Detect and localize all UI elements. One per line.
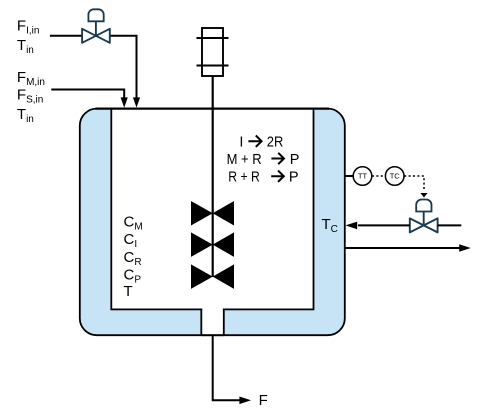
control valve V2 body bbox=[410, 218, 438, 232]
svg-text:Tin: Tin bbox=[17, 37, 34, 56]
vessel top line reinforcement bbox=[96, 107, 330, 109]
control valve V1 actuator stem bbox=[95, 21, 97, 36]
svg-text:Tin: Tin bbox=[17, 106, 34, 125]
svg-text:R + R: R + R bbox=[228, 170, 259, 186]
signal line wall to TT (solid) bbox=[344, 175, 353, 177]
wire: inlet I pipe bbox=[50, 36, 137, 99]
svg-text:P: P bbox=[289, 170, 299, 186]
control valve V1 body bbox=[82, 29, 110, 43]
svg-text:TC: TC bbox=[390, 172, 401, 181]
svg-text:M + R: M + R bbox=[227, 152, 262, 168]
motor housing tick lower bbox=[197, 65, 229, 67]
control valve V2 actuator dome bbox=[416, 200, 431, 212]
arrowhead signal to valve V2 bbox=[420, 193, 427, 198]
svg-text:FI,in: FI,in bbox=[17, 18, 40, 37]
arrowhead inlet M/S pipe into vessel bbox=[121, 97, 128, 107]
reactor jacket (outer vessel, cooling jacket) bbox=[80, 109, 345, 336]
agitator shaft bbox=[212, 76, 214, 277]
signal line TT to TC (dotted) bbox=[372, 175, 385, 177]
instrument TT (temperature transmitter) bbox=[353, 167, 372, 186]
svg-text:P: P bbox=[290, 152, 300, 168]
svg-text:T: T bbox=[124, 283, 133, 300]
agitator motor/bearing housing bbox=[202, 28, 223, 76]
impeller blade pair 1 bbox=[191, 201, 213, 226]
svg-text:FS,in: FS,in bbox=[17, 87, 43, 106]
control valve V1 actuator dome bbox=[88, 9, 103, 21]
impeller blade pair 3 bbox=[191, 264, 213, 289]
svg-text:FM,in: FM,in bbox=[17, 69, 45, 88]
coolant supply line valve V2 to jacket bbox=[358, 224, 410, 226]
outlet nozzle notch through jacket bottom bbox=[201, 308, 224, 335]
arrowhead product outlet bbox=[239, 397, 251, 405]
instrument TC (temperature controller) bbox=[385, 167, 404, 186]
wire: inlet M/S pipe bbox=[51, 90, 124, 100]
svg-text:TT: TT bbox=[358, 172, 368, 181]
reaction equation line 3 arrow bbox=[271, 171, 284, 182]
svg-text:I: I bbox=[239, 134, 243, 150]
reactor vessel (inner tank) bbox=[111, 109, 313, 310]
control valve V2 actuator stem bbox=[423, 212, 425, 226]
motor housing tick upper bbox=[197, 37, 229, 39]
coolant supply line right of valve V2 bbox=[438, 224, 462, 226]
arrowhead coolant return bbox=[459, 244, 471, 252]
svg-text:2R: 2R bbox=[267, 134, 284, 150]
signal line TC to valve V2 (dotted) bbox=[404, 176, 424, 190]
arrowhead inlet I pipe into vessel bbox=[133, 97, 140, 107]
reaction equation line 2 arrow bbox=[271, 153, 284, 164]
impeller blade pair 2 bbox=[191, 232, 213, 257]
svg-text:F: F bbox=[259, 392, 268, 409]
arrowhead coolant into jacket bbox=[346, 222, 358, 230]
reaction equation line 1 arrow bbox=[248, 136, 261, 147]
wire: product outlet line bbox=[213, 335, 240, 400]
coolant return line from jacket bbox=[345, 247, 460, 249]
